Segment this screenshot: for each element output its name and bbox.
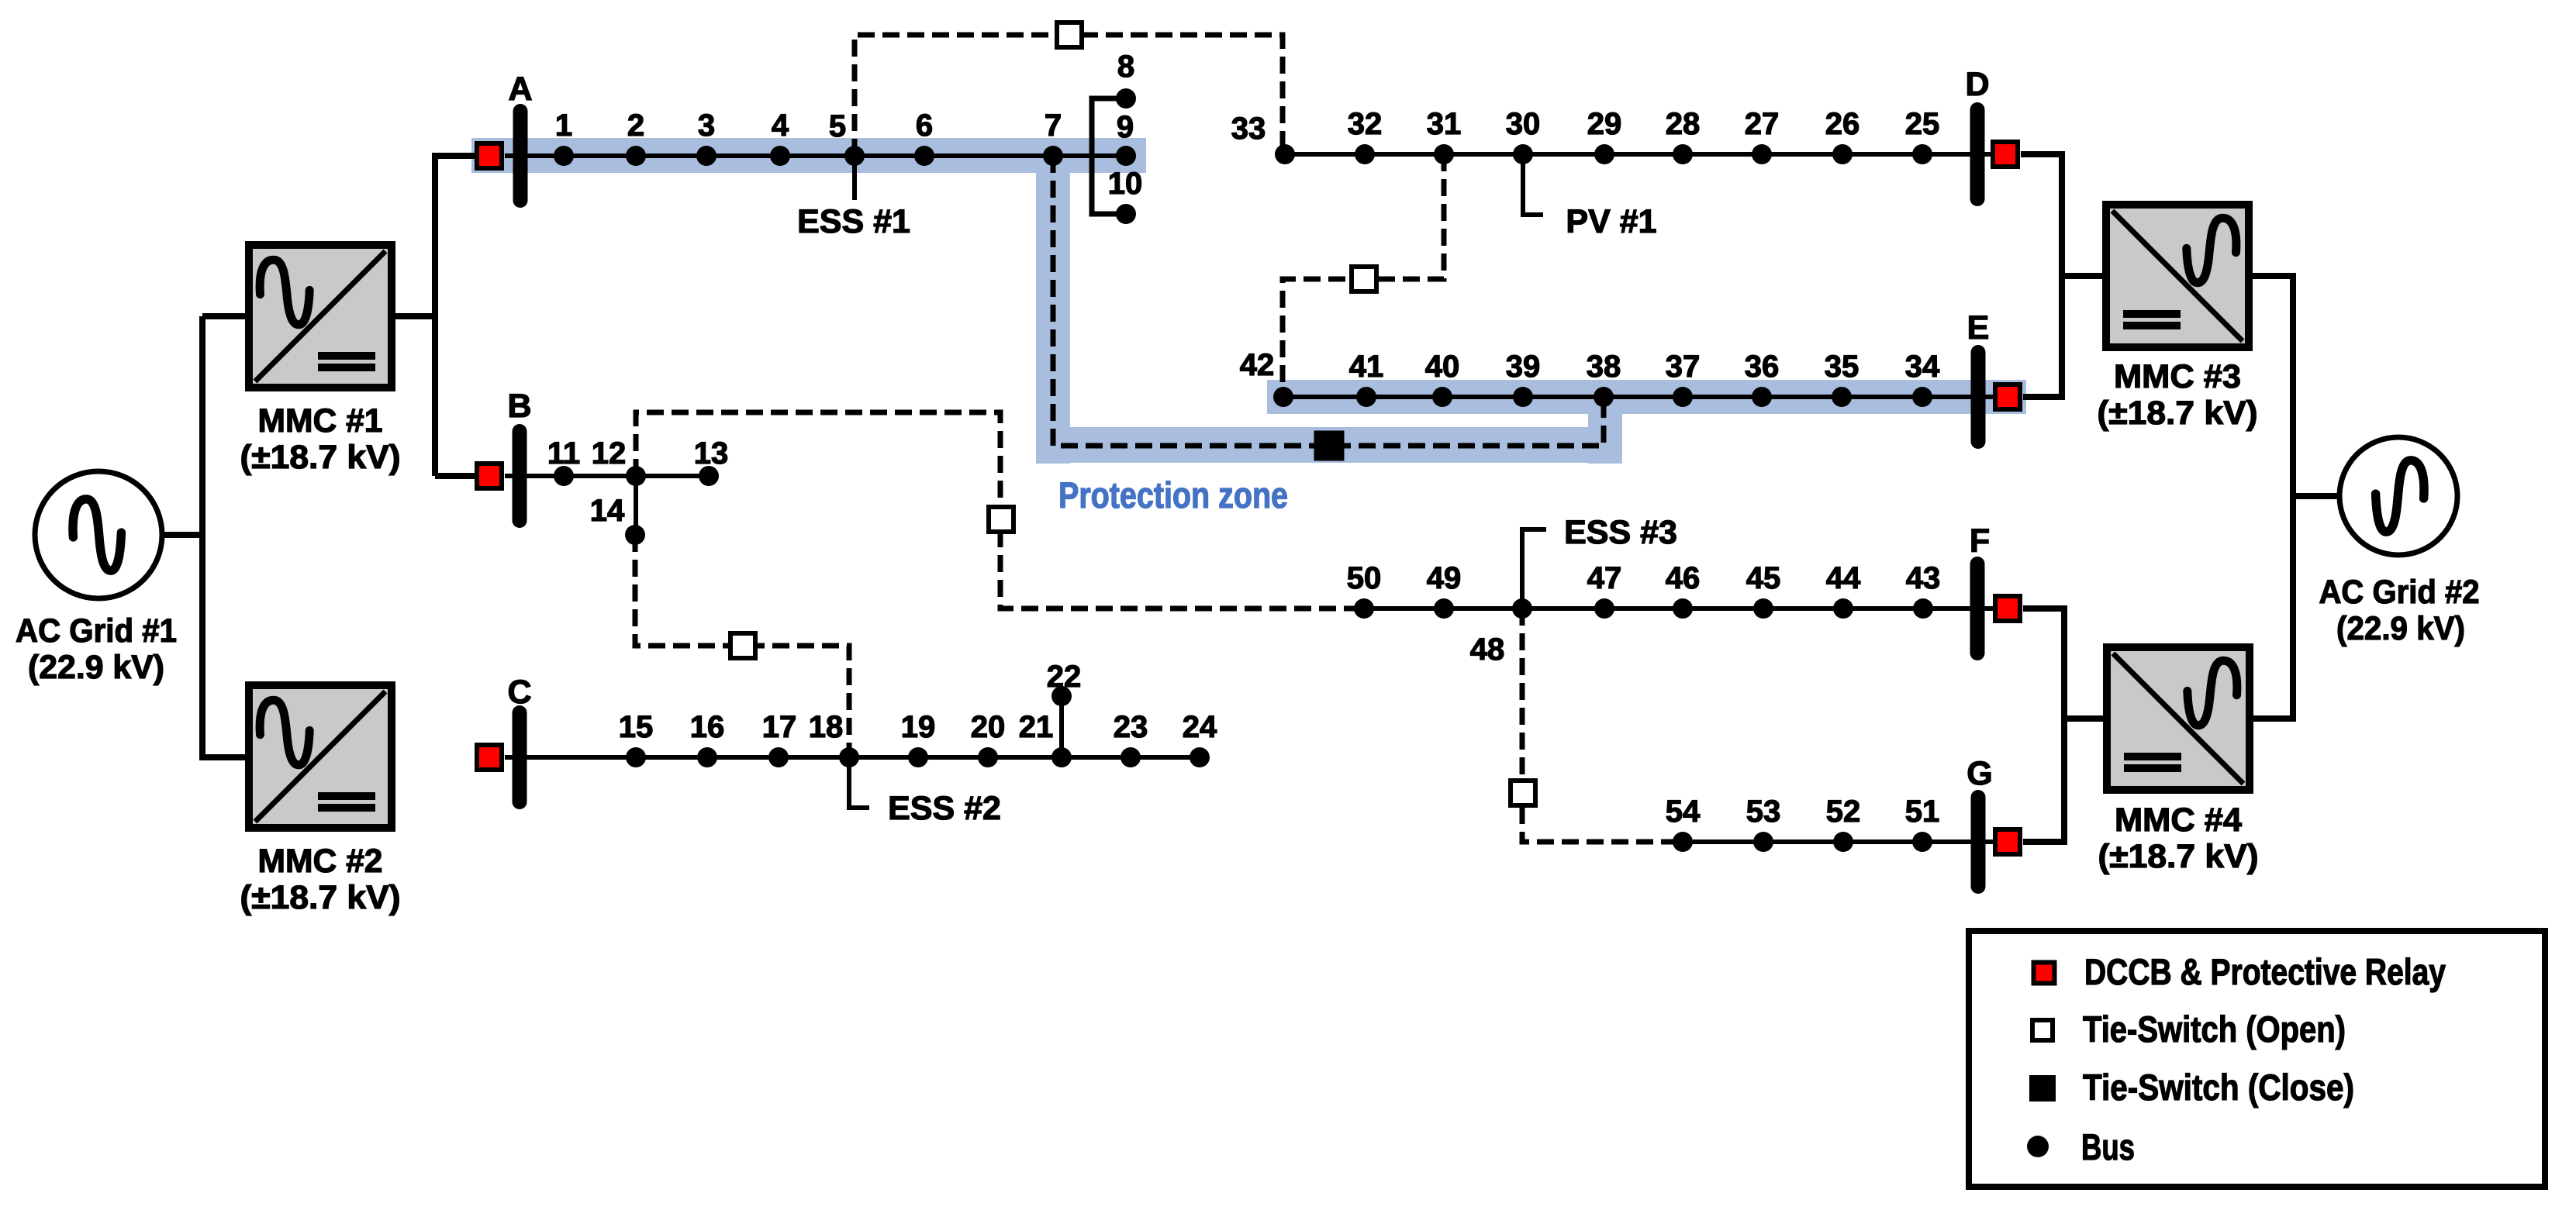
- svg-text:43: 43: [1906, 561, 1941, 595]
- svg-text:13: 13: [694, 436, 729, 471]
- svg-text:MMC #2: MMC #2: [258, 843, 383, 880]
- svg-text:F: F: [1970, 522, 1990, 560]
- svg-text:Bus: Bus: [2081, 1126, 2135, 1167]
- svg-text:54: 54: [1666, 795, 1701, 829]
- svg-text:52: 52: [1826, 795, 1861, 829]
- svg-text:MMC #3: MMC #3: [2114, 358, 2241, 395]
- svg-text:37: 37: [1666, 350, 1701, 384]
- svg-text:35: 35: [1825, 350, 1859, 384]
- svg-text:(±18.7 kV): (±18.7 kV): [240, 879, 401, 916]
- svg-text:17: 17: [762, 710, 797, 744]
- svg-text:22: 22: [1047, 660, 1082, 694]
- svg-text:16: 16: [690, 710, 725, 744]
- svg-text:C: C: [507, 674, 531, 711]
- svg-text:45: 45: [1746, 561, 1781, 595]
- svg-text:4: 4: [772, 109, 789, 143]
- svg-text:(22.9 kV): (22.9 kV): [28, 649, 164, 686]
- svg-text:AC Grid #2: AC Grid #2: [2319, 574, 2480, 611]
- svg-text:G: G: [1967, 755, 1992, 792]
- svg-text:28: 28: [1666, 107, 1701, 141]
- svg-text:12: 12: [592, 436, 627, 471]
- svg-text:39: 39: [1506, 350, 1541, 384]
- svg-text:38: 38: [1587, 350, 1621, 384]
- svg-text:15: 15: [619, 710, 654, 744]
- svg-text:AC Grid #1: AC Grid #1: [16, 612, 177, 650]
- svg-text:Tie-Switch (Close): Tie-Switch (Close): [2083, 1067, 2354, 1108]
- svg-text:32: 32: [1348, 107, 1383, 141]
- svg-text:MMC #4: MMC #4: [2115, 802, 2242, 839]
- svg-text:6: 6: [916, 109, 933, 143]
- svg-text:53: 53: [1746, 795, 1781, 829]
- svg-text:20: 20: [971, 710, 1006, 744]
- svg-text:9: 9: [1117, 110, 1134, 144]
- svg-text:48: 48: [1470, 633, 1505, 667]
- svg-text:18: 18: [809, 710, 844, 744]
- svg-text:21: 21: [1019, 710, 1054, 744]
- svg-text:23: 23: [1114, 710, 1148, 744]
- svg-text:(±18.7 kV): (±18.7 kV): [240, 439, 401, 476]
- svg-text:(±18.7 kV): (±18.7 kV): [2098, 395, 2258, 432]
- svg-text:51: 51: [1905, 795, 1940, 829]
- svg-text:8: 8: [1117, 50, 1134, 84]
- svg-text:Tie-Switch (Open): Tie-Switch (Open): [2083, 1008, 2346, 1050]
- svg-text:D: D: [1965, 66, 1989, 103]
- svg-text:ESS #1: ESS #1: [797, 203, 910, 240]
- svg-text:44: 44: [1826, 561, 1861, 595]
- svg-text:26: 26: [1825, 107, 1860, 141]
- svg-text:5: 5: [829, 109, 846, 143]
- svg-text:(22.9 kV): (22.9 kV): [2336, 610, 2465, 647]
- svg-text:(±18.7 kV): (±18.7 kV): [2098, 838, 2259, 875]
- svg-text:7: 7: [1045, 109, 1062, 143]
- svg-text:A: A: [508, 71, 532, 108]
- svg-text:50: 50: [1347, 561, 1382, 595]
- svg-text:25: 25: [1905, 107, 1940, 141]
- svg-text:ESS #3: ESS #3: [1564, 514, 1677, 551]
- svg-text:Protection zone: Protection zone: [1058, 474, 1288, 515]
- svg-text:3: 3: [698, 109, 715, 143]
- svg-text:36: 36: [1745, 350, 1780, 384]
- svg-text:41: 41: [1349, 350, 1384, 384]
- svg-text:14: 14: [590, 494, 625, 528]
- svg-text:19: 19: [901, 710, 936, 744]
- svg-text:11: 11: [547, 436, 580, 471]
- svg-text:40: 40: [1425, 350, 1460, 384]
- svg-text:46: 46: [1666, 561, 1701, 595]
- svg-text:10: 10: [1108, 167, 1143, 201]
- svg-text:42: 42: [1240, 348, 1275, 382]
- svg-text:2: 2: [627, 109, 644, 143]
- svg-text:34: 34: [1905, 350, 1940, 384]
- svg-text:MMC #1: MMC #1: [258, 402, 383, 440]
- svg-text:24: 24: [1183, 710, 1217, 744]
- svg-text:ESS #2: ESS #2: [888, 790, 1001, 827]
- svg-text:29: 29: [1587, 107, 1622, 141]
- svg-text:30: 30: [1506, 107, 1541, 141]
- svg-text:B: B: [507, 388, 531, 425]
- svg-text:33: 33: [1231, 112, 1266, 146]
- svg-text:49: 49: [1427, 561, 1462, 595]
- svg-text:1: 1: [555, 109, 572, 143]
- svg-text:31: 31: [1427, 107, 1462, 141]
- svg-text:47: 47: [1587, 561, 1622, 595]
- svg-text:E: E: [1967, 309, 1990, 346]
- svg-text:27: 27: [1745, 107, 1780, 141]
- svg-text:PV #1: PV #1: [1566, 203, 1656, 240]
- svg-text:DCCB & Protective Relay: DCCB & Protective Relay: [2084, 951, 2446, 992]
